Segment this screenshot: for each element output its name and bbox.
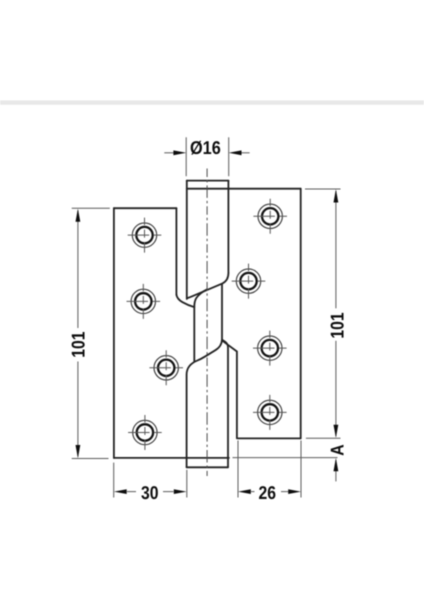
dimension 101 right xyxy=(305,189,341,438)
dimension 26 bottom right xyxy=(238,441,301,498)
svg-text:101: 101 xyxy=(67,331,88,357)
svg-text:30: 30 xyxy=(141,482,158,503)
screw hole L1 xyxy=(128,218,162,253)
dimension diameter 16 xyxy=(164,137,249,176)
lower helical junction xyxy=(187,284,237,467)
center line (pin axis) xyxy=(206,169,208,477)
upper helical junction xyxy=(176,273,228,361)
screw hole L2 xyxy=(127,284,161,319)
svg-text:101: 101 xyxy=(326,312,347,338)
dimension 30 bottom left xyxy=(114,463,187,498)
svg-text:Ø16: Ø16 xyxy=(190,137,221,158)
screw hole R3 xyxy=(253,331,287,366)
dimension A right xyxy=(233,458,338,482)
left leaf xyxy=(114,208,229,458)
svg-text:A: A xyxy=(327,444,348,455)
svg-text:26: 26 xyxy=(258,482,275,503)
dimension 101 left xyxy=(72,208,110,458)
screw hole L3 xyxy=(149,350,183,385)
right leaf xyxy=(238,189,301,439)
screw hole L4 xyxy=(128,415,162,450)
screw hole R4 xyxy=(253,395,287,430)
screw hole R2 xyxy=(232,264,266,299)
screw hole R1 xyxy=(253,199,287,234)
barrel (knuckle cylinder) xyxy=(187,181,301,468)
gray separator band xyxy=(0,100,424,104)
